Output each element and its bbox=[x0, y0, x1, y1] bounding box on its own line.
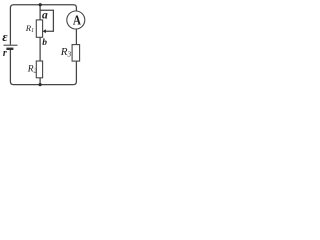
junction node: bottom bus / middle branch bbox=[39, 83, 42, 86]
svg-text:R2: R2 bbox=[27, 64, 37, 74]
svg-text:b: b bbox=[42, 38, 47, 48]
battery cell: long thin positive plate bbox=[4, 44, 18, 46]
wire: right branch upper (top-right corner down to ammeter) bbox=[74, 5, 77, 11]
resistor R2 body bbox=[36, 61, 42, 78]
wire: right branch between ammeter and R3 bbox=[75, 29, 77, 45]
wire: bottom bus bbox=[14, 84, 74, 86]
wire: middle branch between R1 terminal b and R2 bbox=[39, 37, 41, 61]
resistor R1 (rheostat body) bbox=[36, 20, 42, 37]
svg-text:R1: R1 bbox=[25, 23, 34, 34]
wire: middle branch from R2 to bottom junction bbox=[39, 78, 41, 85]
wire: left branch lower (battery to rounded bottom-left corner) bbox=[10, 50, 13, 85]
junction node: top bus / middle branch bbox=[39, 3, 42, 6]
svg-text:r: r bbox=[3, 48, 7, 59]
wire: right branch lower (R3 to rounded bottom-right corner) bbox=[73, 61, 76, 85]
wire: middle branch from top junction down to R1 bbox=[39, 5, 41, 20]
wire: left branch upper (rounded top-left corner down to battery) bbox=[10, 5, 13, 45]
svg-text:R3: R3 bbox=[60, 46, 72, 59]
svg-text:ε: ε bbox=[2, 29, 8, 44]
battery cell: short thick negative plate bbox=[6, 48, 13, 50]
wire: rheostat wiper link (branch from node, riser, shaft) bbox=[40, 10, 53, 31]
rheostat wiper arrowhead bbox=[43, 29, 46, 33]
resistor R3 body bbox=[72, 45, 80, 62]
svg-text:A: A bbox=[73, 12, 82, 27]
wire: top bus bbox=[14, 4, 74, 6]
svg-text:a: a bbox=[42, 10, 48, 22]
ammeter A (circle) bbox=[67, 11, 85, 29]
